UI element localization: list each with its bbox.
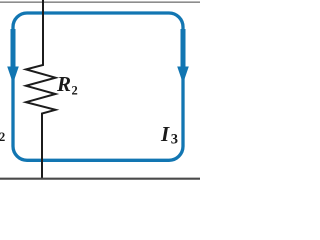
- svg-text:I: I: [160, 122, 170, 146]
- svg-text:2: 2: [72, 84, 78, 98]
- svg-text:2: 2: [0, 130, 5, 144]
- svg-text:3: 3: [171, 131, 178, 147]
- svg-text:R: R: [56, 72, 71, 96]
